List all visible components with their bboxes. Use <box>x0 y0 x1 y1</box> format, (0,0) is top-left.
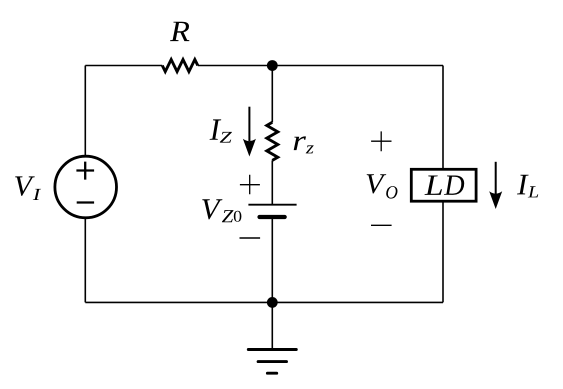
wire between r_z and battery <box>271 160 273 204</box>
label r_z <box>294 136 314 153</box>
battery V_Z0 bottom plate <box>260 215 285 219</box>
ground stem <box>271 302 273 349</box>
label V_O <box>367 174 398 198</box>
label V_I <box>15 176 41 200</box>
wire top-right: from resistor R through node to right corner <box>198 65 443 67</box>
wire below battery to bottom node <box>271 217 273 302</box>
ground bar 3 <box>267 372 276 375</box>
load LD box <box>411 169 476 201</box>
battery plus label <box>240 175 260 194</box>
arrow I_Z <box>243 107 256 157</box>
source minus sign <box>77 201 94 203</box>
label V_Z0 <box>202 199 241 222</box>
source V_I circle <box>55 156 117 218</box>
ground bar 1 <box>248 348 296 351</box>
resistor R <box>162 60 198 72</box>
V_O minus label <box>371 224 392 226</box>
battery minus label <box>240 237 261 239</box>
wire middle branch upper segment <box>271 66 273 123</box>
node B (bottom junction) <box>267 297 278 308</box>
wire left vertical (through source) <box>84 66 86 303</box>
arrow I_L <box>489 162 502 209</box>
node A (top junction) <box>267 60 278 71</box>
battery V_Z0 top plate <box>248 204 296 206</box>
resistor r_z (vertical zener resistance) <box>267 122 278 160</box>
label LD <box>425 176 465 195</box>
label I_L <box>517 175 538 198</box>
V_O plus label <box>371 131 391 151</box>
label I_Z <box>210 119 232 142</box>
source plus sign <box>76 162 94 180</box>
label R <box>170 22 189 41</box>
ground bar 2 <box>258 360 286 363</box>
wire top-left: from left corner to resistor R <box>85 65 162 67</box>
wire bottom horizontal <box>85 301 443 303</box>
wire right vertical (through load) <box>442 66 444 303</box>
